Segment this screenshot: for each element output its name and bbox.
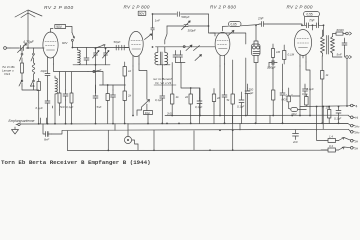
tube V1 grid: [45, 41, 56, 43]
svg-text:0,1M: 0,1M: [288, 53, 295, 57]
wire jack to rail4: [346, 58, 348, 106]
detector cluster box: [252, 44, 261, 56]
tube V2 cathode: [132, 48, 141, 50]
svg-text:pF: pF: [249, 91, 254, 95]
tube V1 envelope: [43, 32, 58, 58]
capacitor under V3: [222, 92, 227, 124]
rail B to terminal H: [348, 115, 350, 117]
svg-text:RV 2 P 800: RV 2 P 800: [44, 5, 74, 11]
label 90V box: [55, 25, 66, 30]
resistor 5k det: [272, 90, 275, 116]
IF transformer TR1: [155, 47, 168, 65]
switch S1a: [20, 48, 23, 61]
potentiometer RGl arrow: [142, 100, 150, 111]
svg-text:Empfangsantenne: Empfangsantenne: [9, 119, 35, 123]
capacitor C-if2: [179, 51, 183, 63]
wire row y88 mid: [88, 72, 125, 94]
wire to V4 grid network: [268, 23, 302, 25]
svg-text:0,1µF: 0,1µF: [195, 105, 202, 109]
capacitor 100pF: [269, 61, 277, 65]
contact S2b: [33, 80, 35, 82]
svg-text:2Hz: 2Hz: [355, 131, 360, 135]
fuse 0.65 oval: [229, 22, 242, 27]
resistor 2k V2: [123, 91, 126, 124]
contact S1b: [33, 53, 35, 55]
wire second row drop left: [165, 26, 167, 44]
capacitor row3 162: [160, 93, 165, 124]
capacitor 5nF under V1: [63, 72, 68, 124]
resistor 600ohm: [336, 32, 346, 35]
svg-text:0,1µF: 0,1µF: [36, 106, 43, 110]
tube V2 filament drops: [133, 64, 139, 70]
capacitor 1nF in anode riser: [151, 28, 155, 30]
capacitor 0.1uF on leg: [45, 101, 50, 103]
tube V1 anode: [46, 45, 56, 47]
rail C 8nF branch: [43, 124, 62, 134]
svg-text:0,1µF: 0,1µF: [237, 105, 244, 109]
capacitor C-if1: [173, 51, 178, 63]
capacitor 20pF on leg: [45, 74, 50, 76]
svg-text:5nF: 5nF: [60, 105, 65, 109]
tube V2 envelope: [129, 31, 143, 56]
wire if row: [156, 47, 216, 65]
output transformer TR2 primary: [321, 30, 325, 56]
capacitor 5nF out: [342, 38, 347, 57]
phone jack top: [346, 32, 352, 35]
svg-text:2kΩ: 2kΩ: [166, 112, 172, 116]
terminal 2Hz a: [351, 124, 360, 128]
svg-text:300pF: 300pF: [188, 29, 196, 33]
contact S2a: [21, 80, 23, 82]
terminal 2H: [344, 147, 358, 151]
wire second row y26: [167, 25, 209, 27]
antenna input terminal: [4, 47, 10, 50]
contact S1a: [21, 53, 23, 55]
capacitor C grid2 plates: [122, 45, 124, 50]
wire fuse feeds: [317, 131, 325, 151]
resistor input R-a: [21, 61, 24, 80]
switch S2b: [31, 80, 34, 86]
rail D y150.3: [68, 149, 329, 151]
tube V2 filament legs: [133, 56, 139, 67]
label 90V tube2: [138, 11, 146, 16]
svg-text:RGl: RGl: [145, 111, 150, 115]
wire row1 drop: [95, 65, 97, 93]
tube V2 grid lead: [124, 47, 129, 49]
svg-text:0,65: 0,65: [231, 23, 237, 27]
capacitor C 7nF a: [302, 23, 313, 28]
resistor under V1 b: [70, 72, 73, 124]
tube V4 envelope: [294, 30, 311, 56]
svg-text:V1, V2 u V3: V1, V2 u V3: [155, 81, 171, 85]
wire if drop 162: [161, 65, 163, 94]
svg-text:100pF: 100pF: [267, 66, 276, 70]
fuse oval NGl: [289, 108, 307, 112]
fuse 0.4 box: [325, 148, 339, 152]
fuse 0.55 legs: [305, 17, 319, 26]
capacitor C 1nF series: [259, 22, 268, 27]
svg-text:1k: 1k: [128, 69, 132, 73]
wire lower row1: [73, 64, 110, 66]
svg-text:0,1µF: 0,1µF: [155, 98, 162, 102]
svg-text:1,4: 1,4: [329, 135, 333, 139]
svg-text:20pF: 20pF: [40, 69, 48, 73]
terminal 2Hz b: [351, 131, 360, 135]
wire left column down: [22, 86, 39, 90]
tube V4 cathode: [299, 47, 308, 49]
svg-text:500pF: 500pF: [181, 15, 189, 19]
junction: [95, 64, 97, 66]
tube V4 anode: [298, 42, 309, 44]
phone jack bottom: [346, 56, 352, 59]
switch S1b: [31, 48, 34, 61]
label nur im Bereich: [153, 77, 173, 85]
tube V4 grid: [297, 38, 309, 40]
switch contact row72: [93, 70, 101, 73]
svg-text:4: 4: [356, 104, 358, 108]
capacitor 2nF below rail: [293, 130, 299, 140]
switch contact on row: [183, 46, 185, 48]
output transformer TR2 core: [327, 36, 329, 55]
capacitor 0.1uF far right: [336, 107, 341, 124]
terminal antenna bottom: [16, 123, 20, 125]
trimmer capacitor 4-70pF: [18, 44, 27, 53]
svg-text:0,1µF: 0,1µF: [334, 117, 341, 121]
tube V4 filament drops: [292, 62, 310, 116]
rail 107 right: [300, 106, 351, 107]
tube V3 filament drops: [220, 64, 225, 116]
tube V2 grid: [131, 40, 142, 42]
junction: [72, 47, 74, 49]
coil L-b: [55, 76, 57, 124]
switch V1 anode: [72, 33, 75, 39]
wire V2 legs to rails: [133, 70, 147, 116]
capacitor C 50pF series: [116, 45, 119, 50]
resistor R grid V4: [283, 45, 286, 64]
svg-text:4-70pF: 4-70pF: [23, 40, 35, 44]
potentiometer RGl box: [144, 104, 153, 115]
rail A main y123.5: [21, 124, 351, 126]
wire det top: [213, 26, 258, 47]
wire grid drop: [312, 25, 314, 30]
output transformer TR2 secondary: [331, 34, 343, 58]
rail B y115.5: [165, 114, 348, 116]
switch V1 contact: [71, 39, 73, 41]
capacitor under grid row 96: [93, 93, 98, 124]
svg-text:600Ω: 600Ω: [337, 28, 345, 32]
svg-text:NGl: NGl: [282, 98, 287, 102]
capacitor 0.1uF right: [303, 84, 308, 96]
junction second row: [208, 25, 210, 27]
trimmer capacitor T2: [103, 48, 110, 65]
coil Lb drop: [52, 106, 54, 108]
trimmer capacitor T1: [93, 48, 100, 65]
switch V2 anode: [145, 34, 152, 40]
wire 316 drop: [317, 107, 324, 131]
wire row y72: [60, 71, 89, 73]
svg-text:VG3: VG3: [4, 72, 10, 76]
svg-text:1k: 1k: [176, 95, 180, 99]
svg-text:0,1µF: 0,1µF: [307, 87, 314, 91]
wire grid row g1: [72, 47, 128, 49]
tube V3 anode: [218, 44, 228, 46]
tube V1 filament legs: [48, 57, 54, 124]
svg-text:RV 2 P 800: RV 2 P 800: [210, 4, 236, 9]
resistor 1k under V1: [58, 72, 61, 110]
lamp L1: [124, 124, 138, 145]
terminal +4: [351, 104, 358, 108]
capacitor C 7nF b: [313, 23, 324, 28]
wire V3 anode top: [223, 25, 260, 31]
svg-text:0,1µF: 0,1µF: [286, 94, 293, 98]
tube V4 filament legs: [300, 55, 306, 66]
resistor 1k top right: [321, 56, 324, 124]
wire pot drop: [137, 110, 148, 124]
capacitor 250pF: [245, 84, 250, 116]
terminal 4y: [344, 138, 358, 144]
resistor 1k row3: [171, 63, 174, 116]
label Tst Vn Bk: [2, 65, 15, 76]
tube V2 anode: [132, 44, 142, 46]
svg-text:50pF: 50pF: [114, 40, 121, 44]
wire V1 anode drop: [71, 41, 73, 47]
capacitor 500pF series top: [177, 12, 179, 17]
resistor under V3 b: [231, 60, 234, 150]
svg-text:5nF: 5nF: [97, 105, 102, 109]
tube V3 grid lead: [210, 33, 215, 36]
fuse 0.55 oval: [304, 12, 320, 17]
capacitor mid row 241: [239, 92, 244, 123]
tube V1 cathode: [47, 49, 55, 51]
switch V3 anode: [228, 30, 234, 35]
junction2: [312, 24, 314, 26]
svg-text:Torn Eb Berta Receiver B Empfa: Torn Eb Berta Receiver B Empfanger B (19…: [1, 159, 151, 166]
capacitor mid row 200: [197, 88, 202, 124]
resistor 1M: [272, 44, 275, 62]
svg-text:0,55: 0,55: [307, 13, 313, 17]
terminal H: [351, 116, 359, 120]
svg-text:2H: 2H: [355, 147, 359, 151]
junction dots rails: [27, 24, 339, 151]
coil input L-a: [32, 61, 35, 80]
resistor 30k: [37, 79, 40, 124]
switch fuse1: [339, 138, 345, 141]
capacitor under grid row 108: [111, 85, 116, 124]
tube V3 envelope: [215, 32, 230, 56]
wire vertical drops misc: [108, 116, 270, 151]
svg-text:0,1µF: 0,1µF: [66, 105, 73, 109]
svg-text:1M: 1M: [276, 50, 281, 54]
tube V3 grid: [217, 40, 228, 42]
svg-text:RV 2 P 800: RV 2 P 800: [124, 5, 150, 10]
tube V3 cathode: [219, 48, 228, 50]
tube V3 filament legs: [220, 56, 225, 67]
switch fuse2: [339, 147, 345, 150]
switch S5: [195, 55, 202, 61]
resistor NGl feed: [287, 88, 290, 109]
wire det drops: [246, 56, 258, 124]
wire tube1 filament drop: [54, 64, 60, 72]
wire V2 anode up: [153, 14, 209, 40]
resistor mid row 214: [212, 89, 215, 124]
wire 90V box to switch: [66, 26, 72, 32]
svg-text:2k: 2k: [127, 94, 132, 98]
wire V4 anode bottom: [302, 56, 304, 59]
capacitor det2: [280, 90, 285, 124]
capacitor C-g1: [84, 48, 89, 65]
tube V1 anode lead: [51, 29, 54, 33]
wire V4 right drop: [323, 25, 325, 36]
svg-text:5nF: 5nF: [337, 53, 342, 57]
antenna A1: [15, 10, 42, 48]
svg-text:2H: 2H: [355, 139, 359, 143]
resistor row3b: [189, 88, 192, 124]
svg-text:90V: 90V: [56, 25, 63, 29]
coil L1: [78, 48, 81, 65]
wire 59.5 drop: [41, 110, 60, 124]
junction: [323, 24, 325, 26]
resistor under grid row 102: [106, 85, 109, 124]
wire antenna input row: [10, 47, 44, 49]
svg-text:2nF: 2nF: [292, 140, 298, 144]
svg-text:90V: 90V: [139, 12, 144, 16]
fuse 1.4 box: [325, 139, 339, 143]
resistor 15k right: [328, 107, 331, 124]
switch S3: [97, 45, 106, 48]
switch S2a: [19, 80, 22, 86]
resistor 1k V2: [123, 62, 126, 91]
wire 1M drop: [269, 62, 283, 90]
trimmer capacitor T3: [182, 21, 191, 30]
switch S4: [186, 45, 200, 51]
svg-text:2Hz: 2Hz: [355, 124, 360, 128]
ground arrow symbol: [12, 127, 19, 134]
svg-text:8nF: 8nF: [44, 138, 49, 142]
rail D left riser: [67, 131, 69, 151]
svg-text:30k: 30k: [30, 84, 35, 88]
underline: [154, 84, 176, 86]
capacitor 8nF: [46, 132, 52, 137]
svg-text:RV 2 P 800: RV 2 P 800: [287, 5, 313, 10]
svg-text:2k: 2k: [184, 95, 189, 99]
junction jack rail: [346, 105, 348, 107]
svg-text:1nF: 1nF: [155, 19, 160, 23]
wire to tube3 grid: [209, 14, 216, 33]
resistor 0.1u right col: [305, 94, 309, 106]
junction top wire: [152, 13, 154, 15]
wire row y88 to tube3: [181, 63, 200, 116]
rail C y130.5: [62, 129, 350, 131]
svg-text:0,4: 0,4: [329, 144, 333, 148]
